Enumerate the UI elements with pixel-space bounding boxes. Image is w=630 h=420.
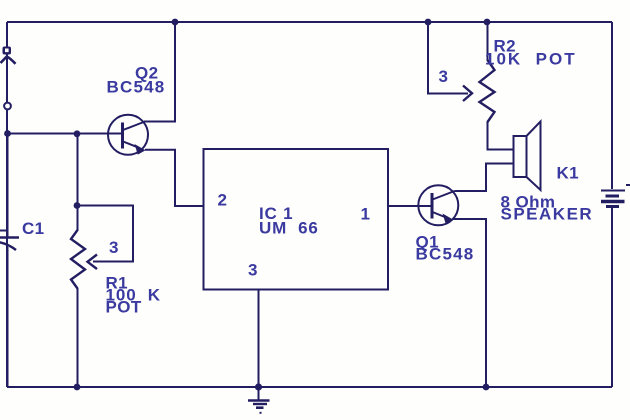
svg-text:C1: C1 [22,219,45,238]
svg-text:BC548: BC548 [416,245,475,264]
svg-text:1: 1 [361,205,371,224]
svg-text:SPEAKER: SPEAKER [501,205,594,224]
svg-text:2: 2 [218,191,228,210]
svg-text:K1: K1 [557,164,580,183]
svg-text:3: 3 [248,261,258,280]
svg-text:3: 3 [109,238,119,257]
svg-text:UM 66: UM 66 [259,219,319,238]
svg-text:3: 3 [439,67,449,86]
svg-text:POT: POT [106,298,142,317]
svg-text:10K POT: 10K POT [485,50,577,69]
svg-text:BC548: BC548 [107,78,166,97]
